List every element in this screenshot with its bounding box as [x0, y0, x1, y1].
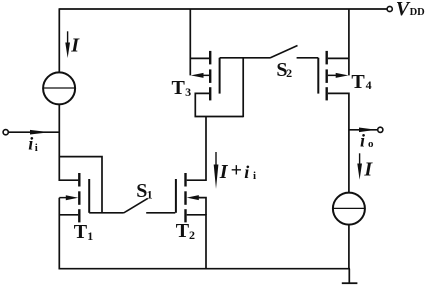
- svg-text:I: I: [363, 158, 373, 180]
- wire left branch mid: [58, 104, 60, 181]
- ground: [348, 269, 350, 284]
- wire T4 source rail from VDD: [348, 9, 350, 75]
- wire bottom ground rail: [59, 268, 350, 270]
- svg-text:2: 2: [286, 66, 292, 80]
- svg-text:1: 1: [147, 188, 153, 202]
- wire branch to S1 node: [59, 157, 102, 213]
- wire T2 bulk corner: [198, 198, 206, 215]
- svg-text:I: I: [70, 35, 80, 57]
- wire T3 source stub: [190, 57, 209, 59]
- wire input: [9, 131, 60, 133]
- switch S1 blade: [124, 198, 148, 213]
- wire output branch: [350, 129, 378, 131]
- wire T4 drain stub down to output: [328, 93, 349, 192]
- svg-text:o: o: [368, 138, 374, 150]
- switch S2 blade: [270, 46, 297, 58]
- wire S1 left segment from T1 gate: [89, 212, 123, 214]
- wire T2 source bulk to ground rail: [187, 215, 206, 270]
- arrow input current: [30, 130, 50, 135]
- svg-text:T: T: [176, 220, 190, 242]
- svg-text:T: T: [351, 71, 365, 93]
- arrow current I left: [67, 31, 68, 43]
- svg-text:T: T: [172, 77, 186, 99]
- wire T4 source stub: [328, 57, 349, 59]
- wire top rail VDD: [59, 8, 387, 10]
- wire T3 gate horizontal to node A: [220, 57, 271, 59]
- svg-text:2: 2: [189, 228, 195, 242]
- transistor T1 bulk arrow: [59, 195, 78, 200]
- wire T2 drain vertical: [187, 117, 206, 181]
- wire S2 right segment to T4 gate: [297, 57, 319, 59]
- wire T3 source rail from VDD: [189, 9, 191, 75]
- wire CS2 to ground rail: [348, 225, 350, 269]
- svg-text:i: i: [360, 131, 365, 151]
- transistor T4 channel dashes: [326, 51, 328, 101]
- svg-text:+: +: [231, 160, 242, 182]
- transistor T3 channel dashes: [209, 51, 211, 101]
- svg-text:1: 1: [87, 229, 93, 243]
- arrow output current: [359, 128, 376, 133]
- wire node A diode vertical: [242, 58, 244, 117]
- node input terminal: [3, 130, 8, 135]
- current source I2: [333, 193, 365, 225]
- node output terminal: [378, 127, 383, 132]
- svg-text:DD: DD: [410, 7, 426, 18]
- node VDD terminal: [387, 6, 392, 11]
- arrow current I right: [359, 153, 360, 165]
- transistor T1 gate line: [88, 179, 90, 213]
- transistor T3 gate line: [219, 58, 221, 94]
- svg-text:i: i: [35, 142, 38, 154]
- wire T1 source stub: [59, 214, 78, 216]
- svg-text:3: 3: [185, 85, 191, 99]
- transistor T2 gate line: [175, 179, 177, 213]
- wire S1 right segment to T2 gate: [146, 212, 175, 214]
- wire T1 source bulk down to ground rail: [58, 198, 60, 270]
- svg-text:i: i: [244, 162, 249, 182]
- wire T3 drain stub and loop: [195, 93, 243, 116]
- transistor T4 gate line: [317, 58, 319, 94]
- svg-text:I: I: [219, 161, 229, 183]
- wire T1 drain stub: [59, 179, 78, 181]
- svg-text:4: 4: [366, 78, 372, 92]
- svg-text:V: V: [396, 0, 411, 20]
- wire left branch upper: [58, 8, 60, 72]
- transistor T2 bulk arrow: [187, 195, 199, 200]
- arrow current I plus ii: [215, 152, 216, 166]
- transistor T1 channel dashes: [78, 173, 80, 222]
- svg-text:i: i: [253, 170, 256, 182]
- transistor T4 bulk arrow: [336, 73, 349, 78]
- transistor T2 channel dashes: [184, 173, 186, 222]
- svg-text:T: T: [74, 221, 88, 243]
- svg-text:i: i: [28, 133, 33, 153]
- current source I1: [43, 72, 75, 104]
- transistor T3 bulk arrow: [191, 73, 204, 78]
